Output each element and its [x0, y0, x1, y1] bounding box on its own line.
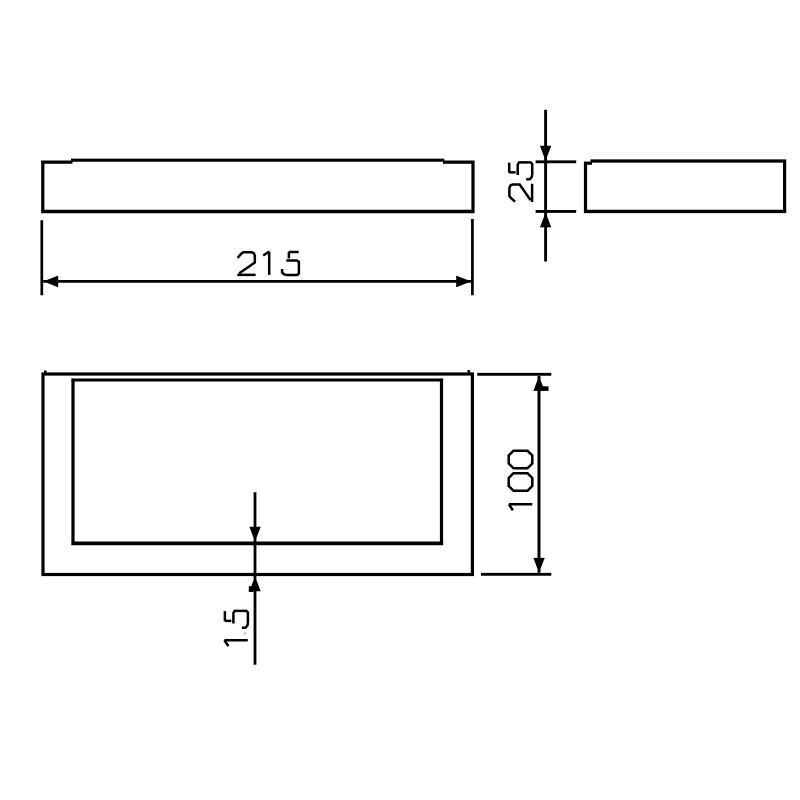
dimension 1.5 upper arrowhead (down) — [249, 527, 260, 542]
dimension 25 top tick — [536, 160, 577, 163]
dimension 100 top arrowhead (up) — [533, 376, 544, 391]
dimension 100 bottom arrowhead (down) — [533, 558, 544, 573]
dimension 100 bottom extension line — [481, 573, 551, 576]
top view inner cavity outline — [71, 378, 443, 545]
dimension 100 top arrowhead nub — [543, 386, 549, 391]
dimension 25 bottom tick — [536, 210, 577, 213]
dimension 215 left arrowhead — [43, 276, 58, 288]
front view outline (top-left, 215x25 bar) — [41, 160, 474, 213]
dimension 1.5 lower arrowhead (up) — [249, 576, 260, 591]
dimension 25 dimension line — [544, 110, 547, 262]
top view outer outline (bottom, 215x100) — [43, 374, 472, 575]
dimension 215 right arrowhead — [456, 276, 471, 288]
dimension text 215 — [237, 252, 299, 276]
top view outer corner nub right — [468, 370, 471, 373]
top view outer corner nub left — [44, 371, 47, 374]
dimension 215 extension line left — [40, 220, 43, 295]
dimension 100 dimension line — [538, 376, 541, 573]
dimension 1.5 lower arrowhead nub — [249, 586, 253, 592]
dimension 25 lower arrowhead (up) — [540, 212, 551, 227]
dimension text 1.5 (rotated) — [224, 611, 248, 646]
side view outline (top-right, 100x25) — [584, 160, 786, 213]
dimension text 100 (rotated) — [509, 451, 533, 511]
dimension 1.5 leader line — [254, 492, 257, 665]
dimension text 25 (rotated) — [509, 162, 532, 202]
dimension 215 dimension line — [43, 280, 471, 283]
dimension 215 extension line right — [471, 219, 474, 295]
dimension 25 upper arrowhead (down) — [540, 146, 551, 161]
dimension 100 top extension line — [477, 373, 551, 376]
